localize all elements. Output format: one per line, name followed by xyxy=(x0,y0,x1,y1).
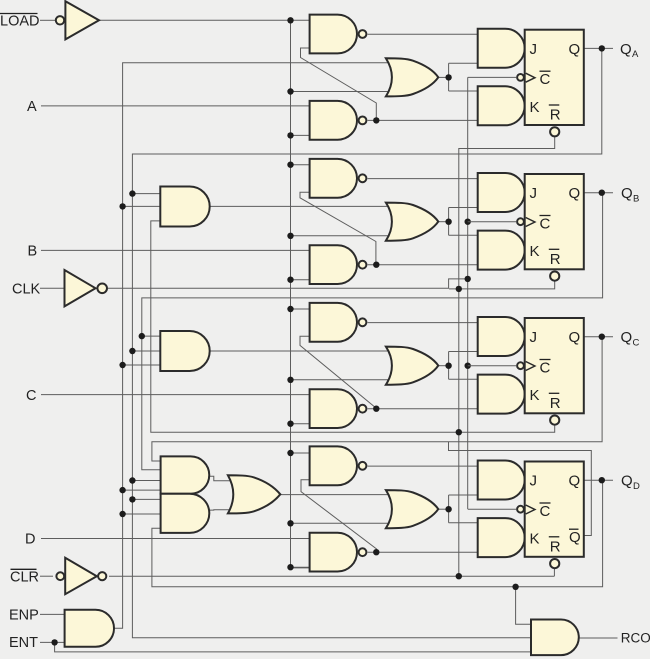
svg-text:A: A xyxy=(632,49,639,60)
svg-text:Q: Q xyxy=(569,529,581,546)
svg-text:Q: Q xyxy=(621,329,633,346)
svg-text:RCO: RCO xyxy=(621,631,650,646)
svg-text:CLK: CLK xyxy=(12,282,41,298)
svg-text:Q: Q xyxy=(620,41,632,58)
svg-text:C: C xyxy=(633,337,640,348)
svg-text:Q: Q xyxy=(621,473,633,490)
svg-text:A: A xyxy=(27,99,37,115)
svg-text:ENT: ENT xyxy=(9,635,38,651)
svg-text:D: D xyxy=(633,481,640,492)
svg-text:LOAD: LOAD xyxy=(0,14,40,30)
svg-text:C: C xyxy=(26,388,36,404)
svg-text:B: B xyxy=(633,193,639,204)
svg-text:D: D xyxy=(25,532,35,548)
svg-text:CLR: CLR xyxy=(10,569,39,585)
svg-text:B: B xyxy=(28,243,38,259)
svg-text:Q: Q xyxy=(621,185,633,202)
svg-text:ENP: ENP xyxy=(9,607,39,623)
